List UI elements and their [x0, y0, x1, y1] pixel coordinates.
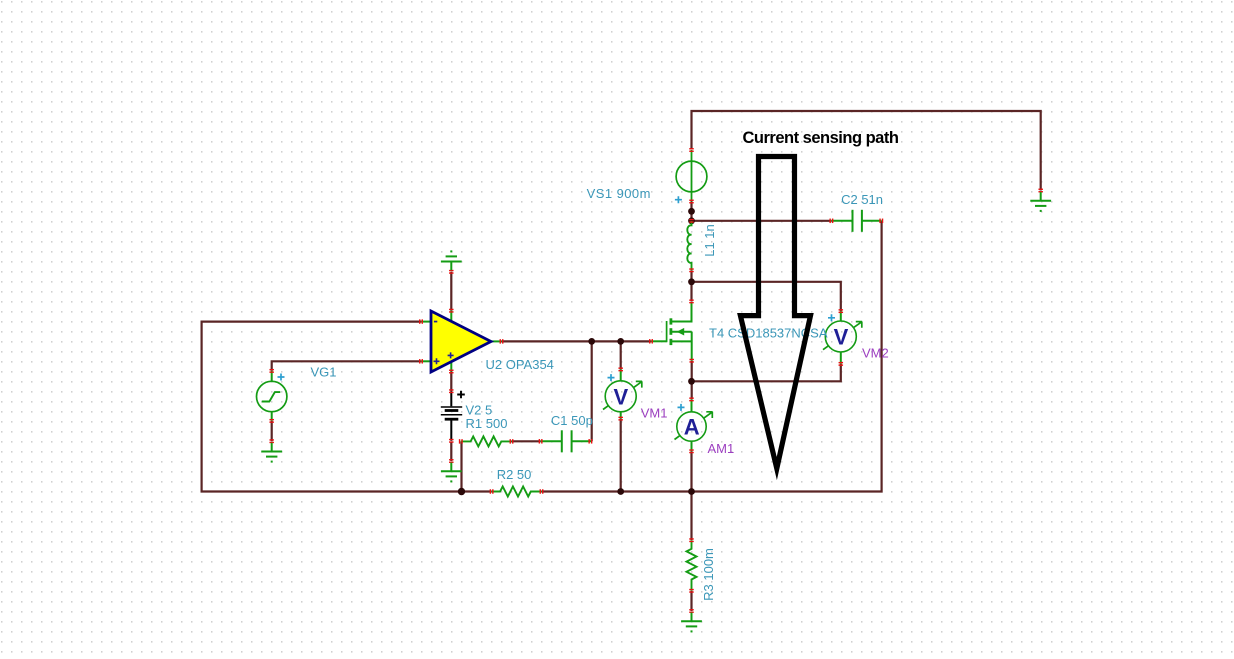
junction node L1 top / C2 branch: [688, 217, 695, 224]
AM1 stubs: [691, 399, 693, 451]
wire opamp top supply pin to upper ground: [450, 272, 452, 311]
AM1 arrow: [675, 412, 713, 440]
wire C1 right riser to output net: [591, 341, 593, 441]
svg-text:L1 1n: L1 1n: [702, 224, 717, 257]
wire VS1 bottom to L1 node: [690, 202, 692, 222]
wire VG1 top to opamp non-inverting input: [272, 361, 421, 371]
svg-text:VG1: VG1: [311, 365, 337, 380]
ground below R3: [681, 613, 702, 632]
VG1 pin end marks: [269, 369, 274, 373]
top-right ground pin mark: [1038, 189, 1043, 193]
svg-text:VM1: VM1: [641, 405, 668, 420]
wire VG1 bottom to ground: [271, 421, 273, 441]
op-amp pin end marks: [419, 319, 423, 324]
svg-text:AM1: AM1: [708, 441, 735, 456]
AM1 plus mark: [678, 404, 685, 411]
voltmeter VM2: [825, 321, 856, 352]
wire opamp bottom supply pin to V2: [450, 371, 452, 391]
battery V2 pin end marks: [449, 389, 454, 393]
voltage source VS1: [676, 161, 707, 192]
wire drain node to VM2 top: [692, 282, 841, 311]
VG1 waveform symbol: [262, 392, 281, 401]
junction node VS1 bottom: [688, 208, 695, 215]
VM2 arrow: [823, 322, 862, 350]
svg-text:C2 51n: C2 51n: [841, 192, 883, 207]
VG1 stubs: [271, 371, 273, 421]
battery V2: [441, 391, 462, 441]
MOSFET body arrow: [677, 328, 685, 336]
inductor L1: [687, 221, 691, 270]
junction node AM1 line on bottom rail: [688, 488, 695, 495]
voltage source VG1: [257, 381, 287, 411]
svg-text:A: A: [684, 415, 700, 440]
junction node VM1 top on output net: [617, 338, 624, 345]
wire AM1 bottom through bottom rail down to R3: [690, 451, 692, 540]
wire R3 bottom to ground: [690, 591, 692, 611]
wire VM2 bottom to source node: [692, 364, 841, 381]
wire node to C2 left: [692, 220, 832, 222]
op-amp supply plus mark: [448, 352, 454, 358]
svg-text:R1 500: R1 500: [466, 416, 508, 431]
op-amp non-inverting input plus mark: [434, 358, 440, 364]
wire opamp output to MOSFET gate: [502, 340, 652, 342]
svg-text:V: V: [834, 325, 849, 350]
svg-text:R2 50: R2 50: [497, 467, 532, 482]
svg-text:R3 100m: R3 100m: [701, 548, 716, 601]
VM2 stubs: [840, 311, 842, 364]
VM1 arrow: [603, 381, 642, 409]
svg-text:C1 50p: C1 50p: [551, 413, 593, 428]
VG1 plus mark: [278, 374, 285, 381]
VS1 line through: [691, 150, 693, 202]
VM2 plus mark: [828, 314, 835, 321]
MOSFET T4: [651, 302, 692, 361]
ground below VG1: [261, 443, 282, 462]
wire bottom rail from R2 right to right riser up to C2: [542, 221, 882, 492]
junction node source / VM2 bottom: [688, 378, 695, 385]
VM1 stubs: [620, 369, 622, 418]
junction node VM1 bottom on bottom rail: [617, 488, 624, 495]
resistor R2: [492, 487, 542, 497]
big black annotation arrow: [740, 157, 810, 469]
voltmeter VM1: [605, 381, 636, 412]
capacitor C2: [831, 210, 881, 232]
wire R1 right to C1 left: [512, 440, 541, 442]
wire R1 left down to bottom rail: [460, 441, 462, 491]
op-amp pin stubs: [421, 311, 502, 372]
junction node C1 riser on output net: [588, 338, 595, 345]
op-amp U1 body: [431, 311, 491, 372]
wire MOSFET source down to AM1: [691, 361, 693, 400]
svg-text:VM2: VM2: [862, 345, 889, 360]
resistor R3: [687, 540, 697, 591]
ammeter AM1: [677, 412, 706, 441]
wire L1 bottom to MOSFET drain: [690, 270, 692, 301]
ground below V2: [441, 463, 462, 482]
wire left feedback loop: opamp inv input, left side, bottom rail to R2 left: [202, 322, 492, 492]
svg-text:Current sensing path: Current sensing path: [743, 129, 899, 147]
VM1 plus mark: [608, 374, 615, 381]
junction node R1 drop on bottom rail: [458, 488, 465, 495]
VS1 plus mark: [675, 196, 682, 203]
wire VM1 top: [620, 341, 622, 369]
svg-text:VS1 900m: VS1 900m: [587, 186, 651, 201]
wire top rail from VS1 top to top-right ground: [692, 111, 1041, 191]
upper ground above op-amp (flipped): [441, 251, 462, 270]
wire V2 bottom to ground: [450, 443, 452, 462]
op-amp inverting input minus mark: [434, 321, 437, 323]
junction node drain / VM2 branch: [688, 278, 695, 285]
svg-text:V: V: [614, 384, 629, 409]
battery V2 plus mark: [457, 391, 465, 399]
resistor R1: [461, 436, 512, 446]
capacitor C1: [541, 430, 592, 452]
svg-text:U2 OPA354: U2 OPA354: [486, 357, 554, 372]
ground top right: [1030, 192, 1051, 211]
wire VM1 bottom to bottom rail: [620, 419, 622, 492]
